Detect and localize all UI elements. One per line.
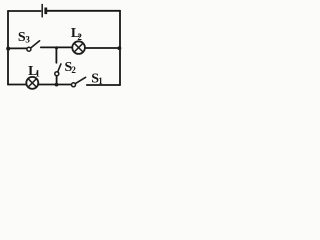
wire middle row segment from L2 to right side	[85, 47, 120, 49]
node junction right of middle row	[118, 46, 122, 50]
svg-text:2: 2	[71, 65, 76, 75]
label S3	[18, 30, 31, 45]
node junction bottom of S2 branch	[55, 83, 59, 87]
wire S2 branch upper vertical	[55, 48, 57, 63]
battery B1	[42, 4, 46, 18]
svg-text:1: 1	[35, 68, 40, 78]
wire middle row left segment	[8, 47, 27, 49]
label S1	[91, 71, 103, 86]
wire S2 branch lower vertical	[56, 76, 58, 85]
lamp L1	[26, 77, 38, 89]
wire middle row segment from S3 to L2	[41, 46, 73, 48]
wire right side	[119, 11, 121, 85]
node junction top of S2 branch	[55, 46, 58, 49]
switch S2	[55, 64, 61, 76]
label L1	[28, 64, 40, 79]
wire bottom side from S1 to right corner	[87, 84, 120, 86]
wire top side left of battery	[8, 10, 41, 12]
label S2	[65, 60, 77, 75]
switch S1	[72, 77, 86, 87]
wire left side	[7, 11, 9, 85]
node junction left of middle row	[6, 47, 10, 51]
svg-text:1: 1	[98, 76, 103, 86]
wire top side right of battery	[47, 10, 120, 12]
label L2	[71, 26, 83, 42]
switch S3	[27, 41, 40, 51]
wire bottom side from left to S1	[8, 84, 71, 86]
svg-text:3: 3	[25, 34, 30, 44]
svg-text:2: 2	[77, 32, 82, 42]
lamp L2	[72, 41, 85, 54]
